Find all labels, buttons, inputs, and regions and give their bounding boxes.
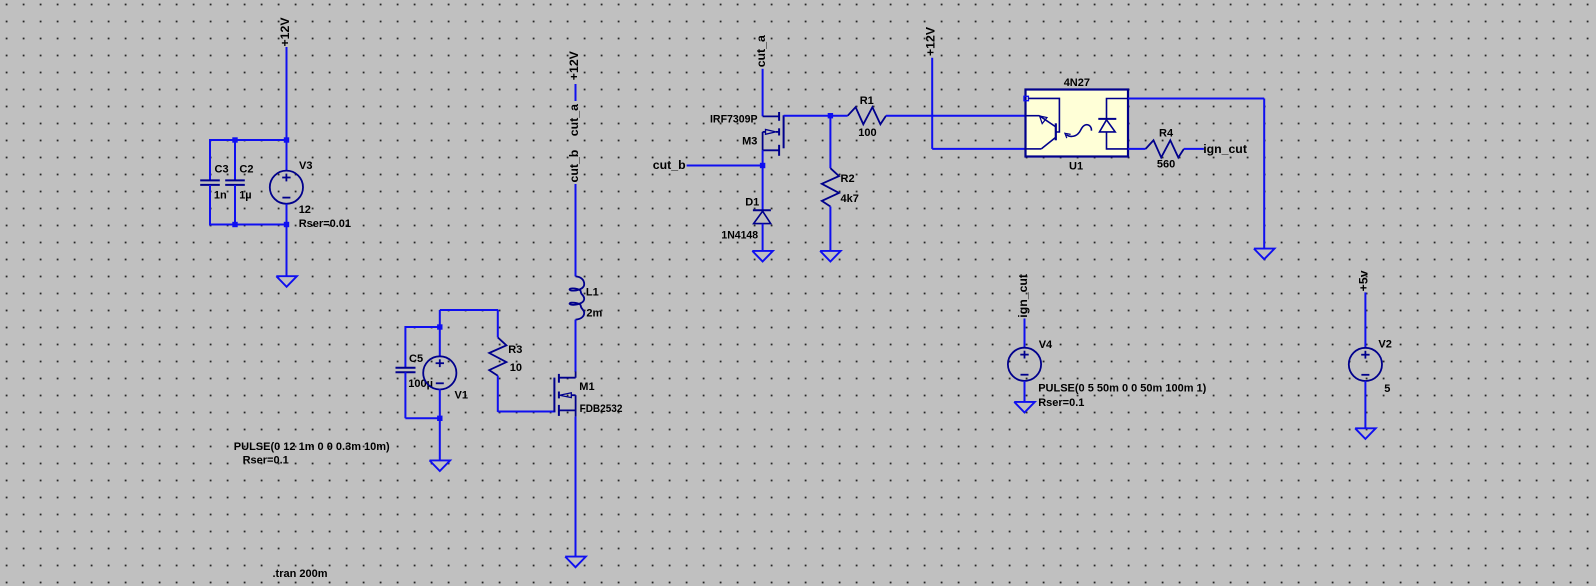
- svg-text:100µ: 100µ: [408, 378, 433, 390]
- resistor R2: [822, 116, 859, 251]
- resistor R1: [830, 95, 886, 139]
- wire: [1364, 292, 1366, 347]
- svg-text:FDB2532: FDB2532: [580, 403, 623, 415]
- svg-text:1N4148: 1N4148: [721, 229, 758, 241]
- .tran directive: [273, 568, 328, 580]
- capacitor C2: [225, 139, 253, 226]
- svg-text:Rser=0.01: Rser=0.01: [299, 218, 351, 230]
- optocoupler U1 4N27 body: [1026, 77, 1129, 172]
- node junction: [760, 163, 765, 168]
- voltage source V3: [270, 160, 351, 230]
- svg-text:M3: M3: [742, 136, 757, 148]
- wire: [439, 418, 441, 460]
- wire: [762, 150, 764, 165]
- svg-text:V3: V3: [299, 160, 312, 172]
- svg-text:1n: 1n: [214, 190, 227, 202]
- wire: [1263, 99, 1265, 249]
- wire (gate of M3): [784, 115, 831, 117]
- svg-text:4N27: 4N27: [1064, 77, 1090, 89]
- wire: [210, 139, 288, 141]
- net label +12V (L1 branch): [567, 50, 581, 80]
- svg-text:ign_cut: ign_cut: [1203, 142, 1247, 156]
- svg-text:Rser=0.1: Rser=0.1: [243, 455, 289, 467]
- net label cut_b (flag): [567, 150, 581, 183]
- svg-text:cut_b: cut_b: [567, 150, 581, 183]
- svg-text:100: 100: [858, 127, 876, 139]
- node junction: [232, 222, 237, 227]
- svg-text:C5: C5: [409, 353, 423, 365]
- svg-text:ign_cut: ign_cut: [1016, 274, 1030, 318]
- V1 Rser text: [243, 455, 289, 467]
- svg-text:2m: 2m: [586, 307, 602, 319]
- resistor R3: [489, 310, 522, 412]
- svg-text:+12V: +12V: [567, 50, 581, 80]
- svg-text:C3: C3: [215, 164, 229, 176]
- diode D1 1N4148: [721, 197, 771, 242]
- wire: [762, 224, 764, 251]
- svg-text:R1: R1: [860, 95, 874, 107]
- ground: [565, 557, 586, 568]
- inductor L1: [570, 276, 603, 319]
- wire: [575, 84, 577, 101]
- svg-text:+5v: +5v: [1357, 270, 1371, 291]
- wire: [762, 69, 764, 117]
- ground: [820, 251, 841, 262]
- net label ign_cut (R4): [1203, 142, 1247, 156]
- wire: [286, 204, 288, 276]
- node junction: [828, 113, 833, 118]
- V4 Rser text: [1038, 397, 1084, 409]
- V1 value text: [234, 441, 390, 453]
- wire: [286, 47, 288, 171]
- svg-text:V2: V2: [1378, 339, 1391, 351]
- voltage source V4: [1008, 339, 1053, 381]
- svg-text:.tran 200m: .tran 200m: [273, 568, 328, 580]
- resistor R4: [1146, 128, 1184, 171]
- svg-text:+12V: +12V: [924, 26, 938, 56]
- wire: [575, 184, 577, 276]
- ground: [752, 251, 773, 262]
- wire: [1128, 98, 1264, 100]
- wire: [439, 327, 441, 357]
- net label ign_cut (V4): [1016, 274, 1030, 318]
- svg-text:PULSE(0 5 50m 0 0 50m 100m 1): PULSE(0 5 50m 0 0 50m 100m 1): [1038, 383, 1206, 395]
- ground: [1254, 249, 1275, 260]
- svg-text:R2: R2: [841, 173, 855, 185]
- svg-text:10: 10: [510, 362, 522, 374]
- node junction: [437, 416, 442, 421]
- svg-text:V1: V1: [455, 389, 468, 401]
- svg-text:PULSE(0 12 1m 0 0 0.3m 10m): PULSE(0 12 1m 0 0 0.3m 10m): [234, 441, 390, 453]
- voltage source V2: [1349, 339, 1392, 395]
- wire: [210, 224, 288, 226]
- wire: [931, 58, 933, 149]
- svg-text:L1: L1: [586, 287, 599, 299]
- net label +12V (opto branch): [924, 26, 938, 56]
- svg-text:1µ: 1µ: [239, 190, 251, 202]
- svg-text:560: 560: [1157, 158, 1175, 170]
- net label cut_b: [653, 158, 686, 172]
- wire: [575, 417, 577, 557]
- capacitor C3: [200, 139, 228, 226]
- svg-text:cut_a: cut_a: [754, 35, 768, 67]
- wire: [440, 309, 498, 311]
- svg-text:5: 5: [1384, 383, 1390, 395]
- wire: [1024, 319, 1026, 348]
- transistor M1 FDB2532: [554, 372, 622, 417]
- wire: [405, 326, 439, 328]
- ground: [276, 276, 297, 287]
- wire: [439, 310, 441, 327]
- net label cut_a (flag): [567, 104, 581, 136]
- U1 unconnected base pin marker: [1024, 96, 1028, 100]
- svg-text:M1: M1: [579, 381, 594, 393]
- node junction: [284, 222, 289, 227]
- svg-text:4k7: 4k7: [841, 193, 859, 205]
- svg-text:IRF7309P: IRF7309P: [710, 114, 758, 126]
- svg-text:C2: C2: [239, 164, 253, 176]
- U1 coupling arrow: [1065, 125, 1092, 138]
- capacitor C5: [396, 326, 434, 418]
- node junction: [284, 137, 289, 142]
- wire: [1364, 381, 1366, 428]
- ground: [430, 460, 451, 471]
- wire: [762, 166, 764, 211]
- U1 phototransistor: [1026, 98, 1060, 148]
- svg-text:+12V: +12V: [278, 17, 292, 47]
- ground: [1355, 428, 1376, 439]
- wire: [498, 411, 556, 413]
- svg-text:U1: U1: [1069, 160, 1083, 172]
- node junction: [437, 324, 442, 329]
- net label cut_a: [754, 35, 768, 67]
- wire: [886, 115, 1026, 117]
- svg-text:Rser=0.1: Rser=0.1: [1038, 397, 1084, 409]
- svg-text:V4: V4: [1039, 339, 1053, 351]
- svg-text:12: 12: [299, 204, 311, 216]
- svg-text:cut_b: cut_b: [653, 158, 686, 172]
- U1 LED: [1098, 99, 1128, 149]
- net label +5v: [1357, 270, 1371, 291]
- svg-text:D1: D1: [745, 197, 759, 209]
- svg-text:R3: R3: [508, 344, 522, 356]
- V4 value text: [1038, 383, 1206, 395]
- transistor M3 IRF7309P: [710, 112, 784, 156]
- svg-text:R4: R4: [1159, 128, 1174, 140]
- wire: [1024, 381, 1026, 402]
- wire: [1128, 148, 1146, 150]
- wire: [687, 165, 763, 167]
- net label +12V (V3 branch): [278, 17, 292, 47]
- wire: [439, 389, 441, 418]
- ground: [1014, 402, 1035, 413]
- node junction: [232, 137, 237, 142]
- voltage source V1: [423, 356, 468, 401]
- svg-text:cut_a: cut_a: [567, 104, 581, 136]
- wire: [575, 320, 577, 372]
- wire: [1184, 148, 1204, 150]
- wire: [405, 417, 439, 419]
- wire: [932, 148, 1025, 150]
